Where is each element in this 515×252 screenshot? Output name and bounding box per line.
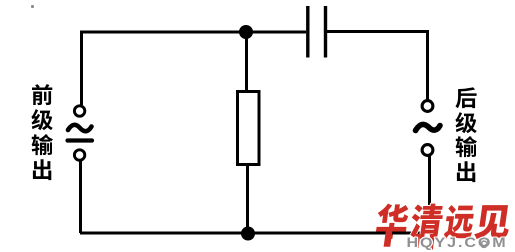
label right char 出 (455, 161, 477, 183)
HQYJ.COM letters (407, 236, 508, 250)
logo char 清 (409, 204, 445, 239)
logo char 华 (374, 204, 410, 239)
terminal J2 upper circle (right) (422, 101, 433, 112)
junction node B (bottom) (241, 227, 255, 241)
capacitor C1 right plate (324, 6, 327, 58)
label left char 输 (31, 134, 53, 156)
logo swirl inside O (481, 241, 487, 247)
label right char 级 (455, 112, 477, 134)
wire: left vertical lower (79, 161, 82, 234)
AC tilde symbol (right) (416, 124, 441, 130)
terminal J2 lower circle (right) (422, 145, 433, 156)
wire: right vertical lower (428, 156, 431, 234)
wire: bottom bus redrawn over logo halo (370, 232, 408, 235)
watermark logo 华清远见 (368, 196, 515, 252)
junction node A (top) (239, 25, 253, 39)
logo 清 left leg descender (414, 234, 420, 248)
wire: middle vertical upper (node A to resistor R1) (245, 32, 248, 91)
AC tilde symbol (left) (68, 125, 92, 131)
logo 华 stem descender (384, 228, 393, 247)
terminal J1 lower circle (left) (74, 150, 84, 160)
capacitor C1 left plate (306, 6, 309, 58)
logo char 见 (473, 205, 512, 239)
wire: right vertical upper (426, 32, 429, 101)
terminal J1 upper circle (left) (74, 106, 84, 116)
label left char 级 (31, 109, 53, 131)
wire: capacitor to top-right corner (327, 30, 429, 33)
stray speck (31, 5, 34, 8)
logo char 远 (443, 205, 476, 239)
wire: top left segment (node A to capacitor) (80, 31, 306, 34)
svg-text:HQYJ.COM: HQYJ.COM (407, 236, 508, 250)
resistor R1 (238, 92, 260, 165)
wire: bottom horizontal (node B bus) (80, 232, 430, 235)
label left char 出 (31, 159, 53, 181)
AC bar symbol (left) (68, 138, 93, 142)
wire: left vertical upper (80, 32, 83, 105)
label left char 前 (31, 84, 53, 106)
wire: middle vertical lower (resistor to node B) (246, 164, 249, 233)
logo 清 right leg descender (429, 234, 435, 250)
label right char 输 (455, 136, 477, 158)
watermark text HQYJ.COM (398, 232, 515, 252)
label right char 后 (455, 87, 477, 109)
